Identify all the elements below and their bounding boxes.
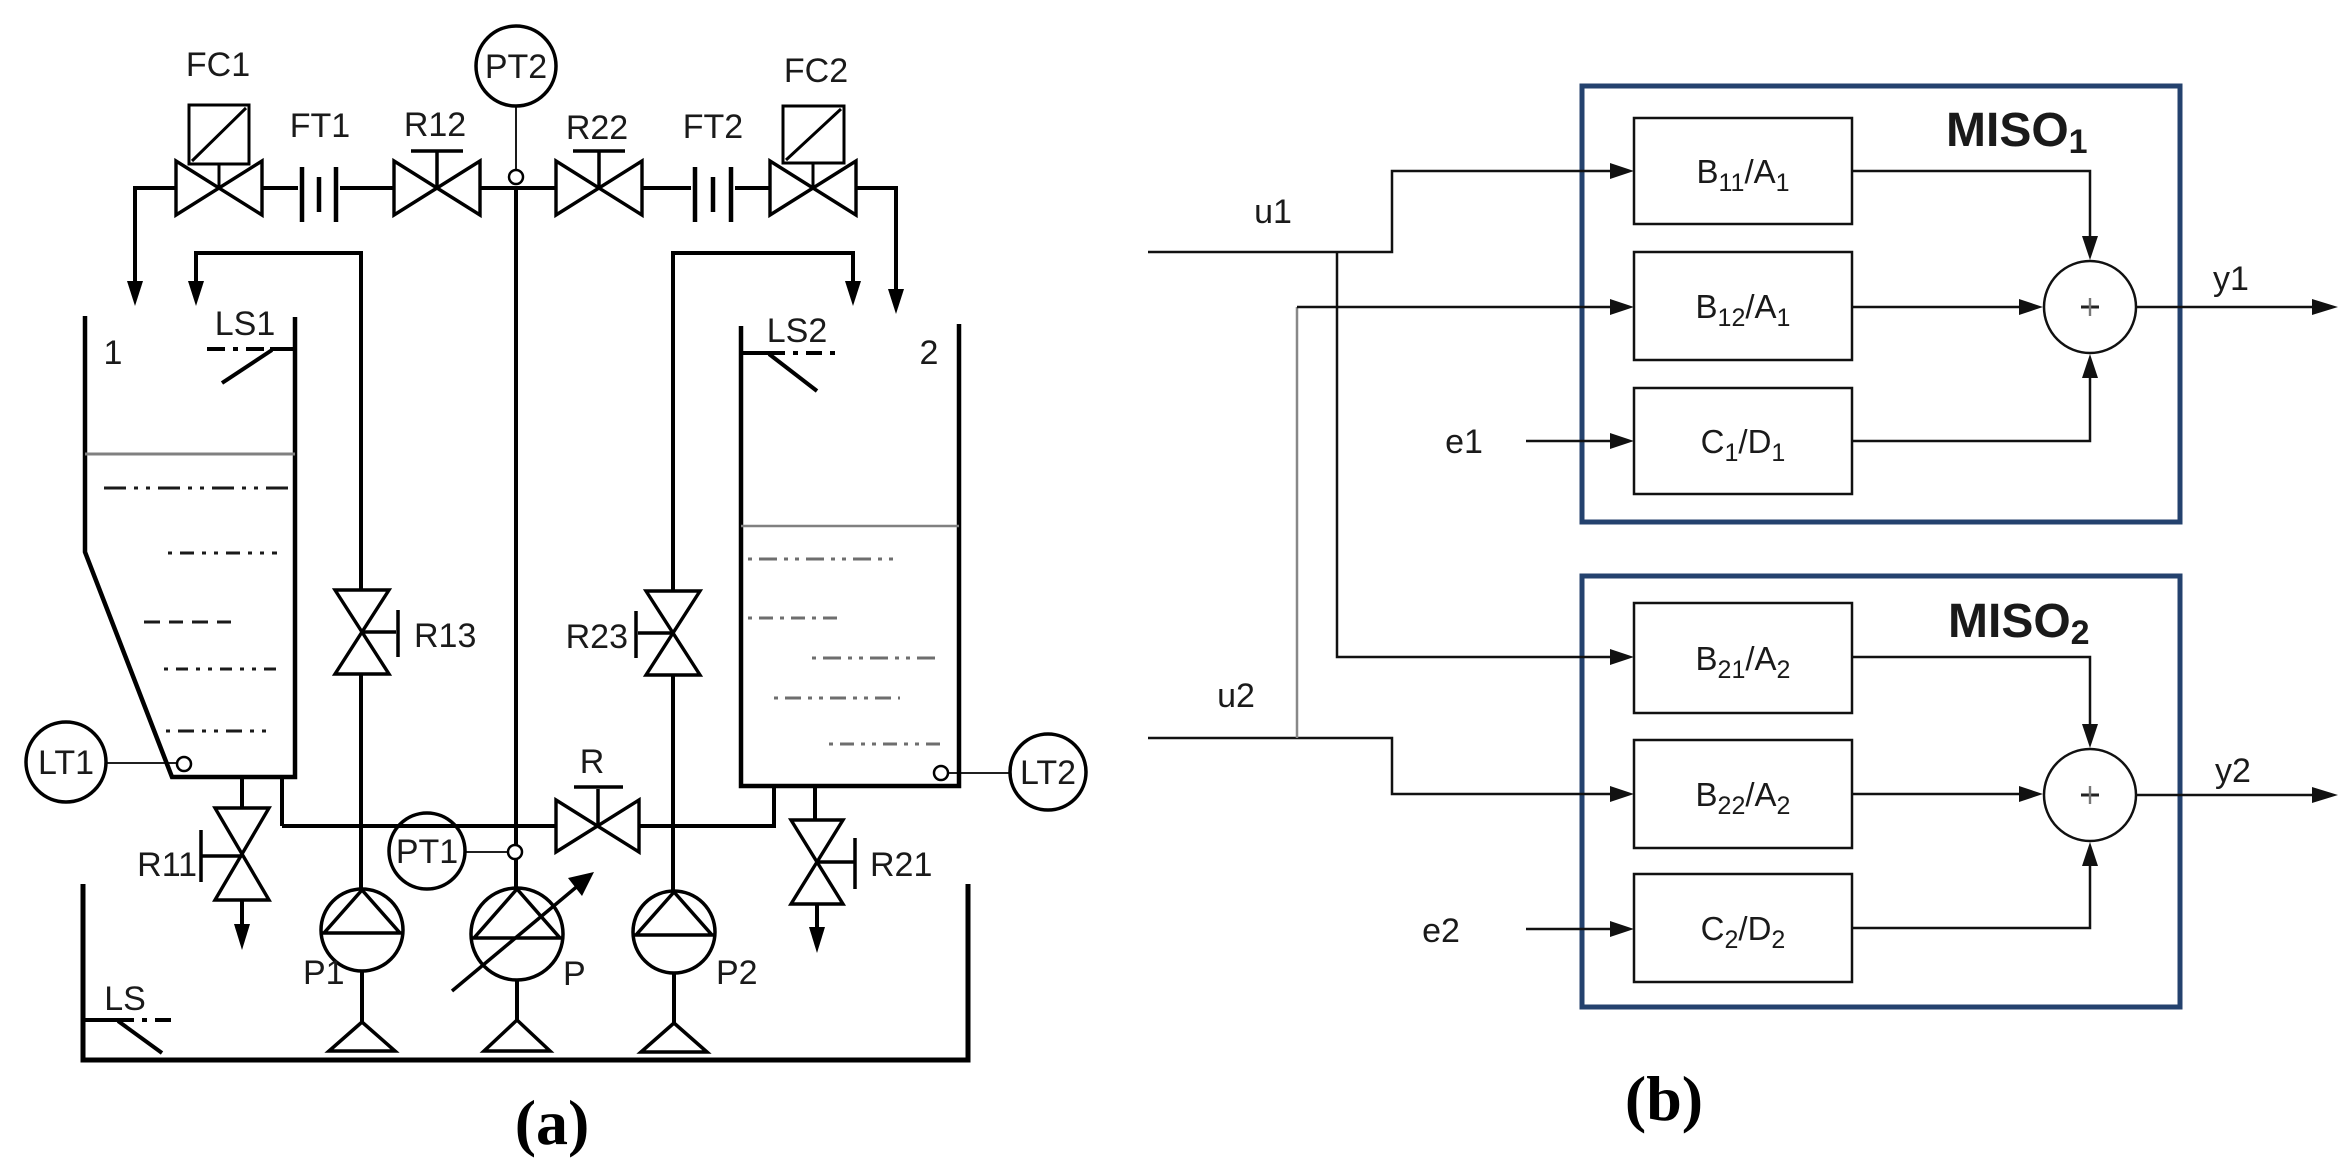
valve R23 handle — [636, 611, 673, 658]
valve R11 body — [215, 808, 269, 900]
valve FC1 actuator box — [189, 105, 249, 164]
wire: C2/D2 output to summing junction 2 — [1852, 866, 2090, 928]
pump P (variable speed) — [471, 888, 563, 980]
valve R21 body — [791, 820, 843, 904]
tank 1 — [85, 316, 295, 777]
level transmitter LT2 circle — [1010, 734, 1086, 810]
valve R11 handle — [201, 830, 242, 882]
valve FC2 actuator stem — [812, 164, 815, 188]
valve FC2 body — [770, 161, 856, 215]
pump P2 — [633, 891, 715, 973]
wire: recirculation loop right horizontal — [673, 251, 853, 255]
level switch LS1 dash-dot line — [207, 347, 270, 351]
flow transmitter FT1 — [302, 167, 336, 222]
arrow into B21 — [1610, 649, 1634, 665]
wire: PT2 sensing line — [515, 106, 517, 170]
wire: u1 input line — [1148, 171, 1610, 252]
valve FC1 actuator stem — [218, 164, 221, 188]
svg-text:LT1: LT1 — [38, 744, 94, 782]
summing junction 1 — [2044, 261, 2136, 353]
block C2/D2 — [1634, 874, 1852, 982]
wire: pipe R22 to FT2 — [642, 186, 691, 190]
svg-text:(a): (a) — [515, 1087, 590, 1158]
block B12/A1 — [1634, 252, 1852, 360]
arrow into tank 2 outer — [888, 289, 904, 314]
wire: riser P1/R13 upper segment — [359, 251, 363, 590]
svg-text:P1: P1 — [303, 954, 345, 992]
valve R22 stem and handle — [573, 151, 625, 188]
pump P2 foot — [641, 1023, 707, 1052]
tank 1 water dash line 3 — [144, 621, 234, 624]
svg-text:y1: y1 — [2213, 260, 2249, 298]
wire: pipe R12 to R22 through PT2 junction — [480, 186, 556, 190]
wire: tank2 bottom outlet to manifold — [772, 786, 776, 828]
node PT2 tap — [509, 170, 523, 184]
svg-text:LS2: LS2 — [767, 312, 828, 350]
tank 2 water dash line 1 — [748, 558, 898, 561]
valve R12 body — [394, 161, 480, 215]
wire: pump P discharge below circle — [515, 979, 519, 1022]
arrow into C1/D1 — [1610, 433, 1634, 449]
arrow into sum2 bottom — [2082, 842, 2098, 866]
summing junction 2 — [2044, 749, 2136, 841]
wire: B11 output to summing junction 1 — [1852, 171, 2090, 236]
wire: riser P2/R23 upper segment — [671, 251, 675, 591]
arrow into tank 1 outer — [127, 281, 143, 306]
svg-text:e2: e2 — [1422, 912, 1460, 950]
tank 2 water dash line 2 — [748, 617, 840, 620]
tank 2 water level line — [741, 525, 959, 528]
level switch LS1 actuator diagonal — [222, 350, 272, 383]
level switch LS2 solid line — [741, 351, 769, 355]
svg-text:PT2: PT2 — [485, 48, 547, 86]
wire: pipe FC2 to right corner — [856, 186, 898, 190]
valve R stem and handle — [574, 787, 623, 826]
pump P1 foot — [329, 1022, 395, 1051]
wire: main top pipe segment left end to FC1 — [135, 186, 176, 190]
node PT1 tap — [508, 845, 522, 859]
arrow into B11 — [1610, 163, 1634, 179]
wire: pump P2 discharge below circle — [672, 972, 676, 1025]
arrow into C2/D2 — [1610, 921, 1634, 937]
arrow through pump P — [452, 884, 580, 991]
node LT1 tap — [177, 757, 191, 771]
wire: y1 output — [2136, 306, 2314, 309]
pressure transmitter PT2 circle — [476, 26, 556, 106]
valve R21 handle — [817, 838, 855, 889]
wire: pipe FC1 to FT1 — [262, 186, 298, 190]
wire: B12 output to summing junction 1 — [1852, 306, 2019, 309]
MISO2 outer box — [1582, 576, 2180, 1007]
MISO1 outer box — [1582, 86, 2180, 522]
wire: pipe FT1 to R12 — [340, 186, 394, 190]
arrow R21 drain — [809, 927, 825, 953]
svg-text:PT1: PT1 — [396, 833, 458, 871]
wire: recirculation loop left down stub — [194, 251, 198, 283]
wire: PT1 sensing line — [465, 851, 508, 853]
wire: bottom manifold left of valve R — [282, 824, 556, 828]
wire: LT1 sensing line — [106, 762, 177, 764]
level switch LS dash-dot line — [118, 1018, 178, 1022]
arrow into sum1 left — [2019, 299, 2043, 315]
svg-text:u2: u2 — [1217, 677, 1255, 715]
pressure transmitter PT1 circle — [389, 813, 465, 889]
svg-text:R11: R11 — [137, 846, 197, 884]
pump P foot — [484, 1020, 550, 1051]
level switch LS1 solid line — [270, 347, 295, 351]
reservoir walls — [83, 884, 968, 1060]
tank 2 — [741, 324, 959, 786]
svg-text:FT1: FT1 — [290, 107, 350, 145]
wire: tank1 bottom outlet to manifold — [280, 779, 284, 826]
tank 1 water level line — [85, 453, 295, 456]
wire: u2 branch up (gray riser) — [1296, 307, 1299, 738]
wire: pump P1 discharge below circle — [360, 971, 364, 1024]
svg-text:1: 1 — [104, 334, 123, 372]
level switch LS solid line — [83, 1018, 118, 1022]
valve FC1 body — [176, 161, 262, 215]
wire: C1/D1 output to summing junction 1 — [1852, 378, 2090, 441]
arrow y1 — [2312, 299, 2338, 315]
wire: B21 output to summing junction 2 — [1852, 657, 2090, 724]
svg-text:FC2: FC2 — [784, 52, 848, 90]
valve R23 body — [646, 591, 700, 675]
level transmitter LT1 circle — [26, 722, 106, 802]
wire: recirculation loop left horizontal — [196, 251, 361, 255]
svg-text:P: P — [563, 955, 586, 993]
svg-text:R22: R22 — [566, 109, 628, 147]
tank 2 water dash line 4 — [774, 697, 900, 700]
wire: riser P2/R23 lower segment — [671, 675, 675, 891]
wire: e1 input line — [1526, 440, 1610, 443]
svg-text:R: R — [580, 743, 605, 781]
wire: LT2 sensing line — [948, 772, 1010, 774]
wire: branch into B12 — [1297, 306, 1610, 309]
tank 2 water dash line 3 — [812, 657, 940, 660]
wire: y2 output — [2136, 794, 2314, 797]
svg-text:LS1: LS1 — [215, 305, 276, 343]
block B22/A2 — [1634, 740, 1852, 848]
valve R13 handle — [362, 610, 398, 657]
arrow y2 — [2312, 787, 2338, 803]
svg-text:R21: R21 — [870, 846, 932, 884]
block B11/A1 — [1634, 118, 1852, 224]
node LT2 tap — [934, 766, 948, 780]
svg-text:MISO2: MISO2 — [1948, 595, 2090, 652]
arrow into sum1 top — [2082, 236, 2098, 260]
svg-text:u1: u1 — [1254, 193, 1292, 231]
wire: u2 input line — [1148, 738, 1610, 794]
block C1/D1 — [1634, 388, 1852, 494]
tank 2 water dash line 5 — [829, 743, 942, 746]
level switch LS2 dash-dot line — [769, 351, 838, 355]
tank 1 water dash line 5 — [166, 730, 270, 733]
svg-text:P2: P2 — [716, 954, 758, 992]
tank 1 water dash line 2 — [168, 552, 277, 555]
wire: center riser from PT2 junction down to pump P — [514, 186, 518, 890]
arrow into B12 — [1610, 299, 1634, 315]
svg-text:MISO1: MISO1 — [1946, 104, 2088, 161]
valve R13 body — [335, 590, 389, 674]
arrow into B22 — [1610, 786, 1634, 802]
svg-text:FT2: FT2 — [683, 108, 743, 146]
flow transmitter FT2 — [695, 167, 731, 222]
arrow into tank 2 inner — [845, 281, 861, 306]
block B21/A2 — [1634, 603, 1852, 713]
svg-text:LS: LS — [104, 980, 146, 1018]
svg-text:y2: y2 — [2215, 752, 2251, 790]
wire: recirculation loop right down stub — [851, 251, 855, 283]
svg-text:LT2: LT2 — [1020, 754, 1076, 792]
wire: e2 input line — [1526, 928, 1610, 931]
svg-text:R23: R23 — [566, 618, 628, 656]
wire: right downpipe into tank 2 — [894, 186, 898, 291]
valve R12 stem and handle — [411, 151, 463, 188]
wire: B22 output to summing junction 2 — [1852, 793, 2019, 796]
level switch LS2 actuator diagonal — [769, 354, 817, 391]
tank 1 water dash line 4 — [164, 668, 283, 671]
level switch LS actuator diagonal — [118, 1021, 162, 1053]
arrow into sum2 top — [2082, 724, 2098, 748]
valve R22 body — [556, 161, 642, 215]
valve FC2 actuator box — [783, 106, 844, 163]
wire: bottom manifold right of valve R — [639, 824, 774, 828]
arrow into sum1 bottom — [2082, 354, 2098, 378]
arrow into sum2 left — [2019, 786, 2043, 802]
svg-text:e1: e1 — [1445, 423, 1483, 461]
wire: pipe FT2 to FC2 — [735, 186, 770, 190]
wire: tank2 bottom outlet to R21 — [813, 786, 817, 821]
arrow into tank 1 inner — [188, 281, 204, 306]
svg-text:R13: R13 — [414, 617, 476, 655]
tank 1 water dash line 1 — [104, 487, 289, 490]
svg-text:2: 2 — [920, 334, 939, 372]
wire: u1 branch down to B21 — [1337, 252, 1610, 657]
wire: riser P1/R13 lower segment — [359, 674, 363, 889]
valve R body — [556, 800, 639, 852]
wire: left downpipe into tank 1 — [133, 186, 137, 283]
svg-text:R12: R12 — [404, 106, 466, 144]
svg-text:FC1: FC1 — [186, 46, 250, 84]
wire: R11 drain — [240, 900, 244, 926]
wire: tank1 bottom outlet to R11 — [240, 779, 244, 809]
pump P1 — [321, 889, 403, 971]
wire: R21 drain — [815, 904, 819, 929]
arrow R11 drain — [234, 924, 250, 950]
svg-text:(b): (b) — [1625, 1063, 1703, 1134]
